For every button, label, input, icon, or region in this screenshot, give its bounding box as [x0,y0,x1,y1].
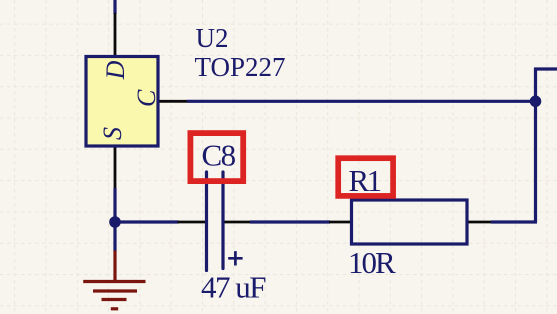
svg-text:C8: C8 [202,138,236,173]
resistor R1 body [352,200,468,244]
wire: vertical net into D pin from top edge [113,0,116,14]
junction dot right [530,96,542,108]
polarity plus sign [228,251,242,265]
capacitor C8 left lead (black) [178,221,206,224]
wire: node to capacitor C8 [113,220,179,223]
ground symbol bars [83,282,145,309]
svg-text:S: S [98,127,127,140]
resistor R1 left lead (black) [329,221,351,224]
svg-text:D: D [101,60,130,80]
svg-text:10R: 10R [348,245,396,280]
resistor R1 right lead (black) [469,221,493,224]
wire: S pin down to ground node [113,188,116,252]
red highlight box around C8 [190,133,243,181]
wire: resistor to right vertical bus [491,220,537,223]
capacitor C8 right lead (black) [225,221,251,224]
pin D lead (black) [114,13,117,56]
svg-text:47 uF: 47 uF [201,270,266,305]
op-amp U2 body (TOP227 switcher IC, yellow box) [86,57,158,147]
wire: right vertical bus with top corner exiting right edge [536,69,557,222]
pin S lead (black) [114,148,117,191]
junction dot left [109,216,121,228]
wire: capacitor to resistor R1 [250,220,330,223]
red highlight box around R1 [338,158,393,196]
svg-text:C: C [132,89,161,107]
svg-text:TOP227: TOP227 [195,52,286,82]
wire: C pin to right bus [187,100,537,103]
capacitor C8 right plate [221,172,224,269]
svg-text:U2: U2 [196,23,229,53]
pin C lead (black) [160,100,188,103]
capacitor C8 left plate [205,172,208,271]
svg-text:R1: R1 [349,163,381,198]
ground lead (dark red) [113,251,116,282]
